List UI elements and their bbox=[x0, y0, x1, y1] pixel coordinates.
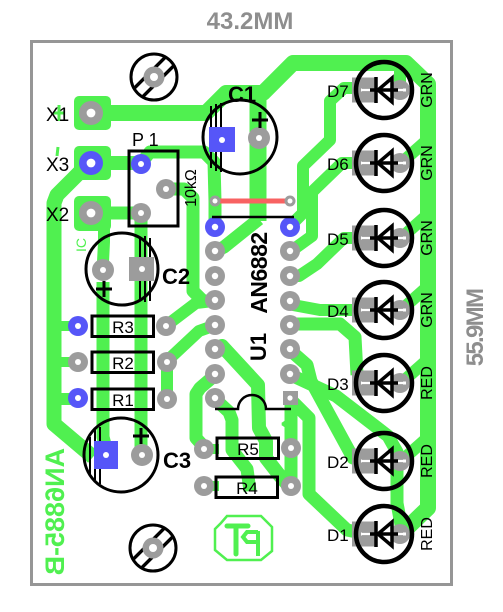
pad D6 right bbox=[390, 153, 410, 173]
wire U1 to D4 bbox=[293, 305, 364, 310]
svg-text:AN6882: AN6882 bbox=[246, 232, 272, 313]
pad D2 right bbox=[390, 451, 410, 471]
wire pin398 down under R5 R4 bbox=[215, 399, 250, 491]
svg-text:R3: R3 bbox=[112, 318, 134, 337]
pad D3 right bbox=[390, 373, 410, 393]
svg-text:D5: D5 bbox=[327, 230, 349, 249]
wire U1 to D6 bbox=[294, 163, 365, 249]
pad P1 pin3 bbox=[131, 203, 151, 223]
pad R1 right bbox=[157, 389, 177, 409]
pad D1 right bbox=[390, 524, 410, 544]
svg-text:R4: R4 bbox=[236, 479, 258, 498]
wire jumper red bbox=[219, 199, 286, 204]
svg-text:D3: D3 bbox=[327, 375, 349, 394]
pad U1 right pin 1 bbox=[280, 241, 300, 261]
wire U1 to D7 bbox=[291, 88, 365, 225]
pad U1 left pin 7 bbox=[205, 388, 225, 408]
wire P1 pin3 down to C2 square bbox=[135, 220, 148, 258]
LED D4 outline bbox=[356, 282, 412, 338]
pad C3 right bbox=[131, 444, 153, 466]
svg-text:C1: C1 bbox=[228, 82, 256, 107]
trace green pad X2 bbox=[74, 196, 111, 231]
svg-text:R5: R5 bbox=[237, 440, 259, 459]
LED D6 diode symbol bbox=[361, 150, 406, 176]
resistor R5 outline bbox=[217, 438, 279, 459]
pad R1 left bbox=[68, 388, 88, 408]
capacitor C1 plus bbox=[252, 112, 268, 128]
pad D4 left bbox=[352, 298, 376, 323]
LED D7 outline bbox=[356, 62, 412, 118]
resistor R3 outline bbox=[92, 316, 154, 337]
pad U1 left pin 4 bbox=[205, 315, 225, 335]
pad X3 bbox=[79, 151, 103, 175]
pad U1 left pin 1 bbox=[205, 241, 225, 261]
wire pin1 to R5 right R4 right bbox=[285, 401, 298, 486]
wire rail to R2 left bbox=[58, 357, 78, 367]
capacitor C2 outline bbox=[86, 233, 158, 305]
mounting hole hatch top bbox=[133, 56, 174, 97]
wire X2 down to C2 left bbox=[103, 228, 104, 262]
wire U1 to R5 left bbox=[196, 376, 214, 447]
pad U1 left pin 3 bbox=[205, 290, 225, 310]
pad R4 right bbox=[281, 476, 301, 496]
LED D4 diode symbol bbox=[361, 297, 406, 323]
wire C2 left to C3 plus bbox=[103, 282, 106, 448]
op-amp U1 outline bottom with notch bbox=[215, 395, 291, 409]
wire D2 right stub bbox=[400, 439, 426, 462]
pad C1 negative bbox=[248, 127, 270, 149]
LED D3 outline bbox=[356, 355, 412, 411]
LED D3 diode symbol bbox=[361, 370, 406, 396]
svg-text:GRN: GRN bbox=[419, 72, 436, 108]
wire U1 pin349 interior band bbox=[216, 346, 289, 486]
wire X2 to P1 pin3 bbox=[91, 207, 140, 220]
svg-text:C2: C2 bbox=[162, 264, 190, 289]
wire X3 down left rail bbox=[54, 170, 93, 457]
capacitor C2 stripe bbox=[140, 236, 150, 302]
pad R3 right bbox=[156, 316, 176, 336]
svg-text:RED: RED bbox=[419, 366, 436, 400]
svg-text:P 1: P 1 bbox=[132, 130, 159, 150]
logo PT octagon bbox=[215, 516, 272, 560]
pad R4 left bbox=[194, 476, 214, 496]
mounting hole bottom circle bbox=[130, 525, 176, 571]
wire U1 to D5 bbox=[291, 238, 365, 276]
wire pin to D2 left bbox=[291, 351, 362, 460]
LED D6 outline bbox=[356, 135, 412, 191]
silkscreen pin1 arrow U1 bbox=[282, 419, 296, 429]
resistor R1 outline bbox=[92, 389, 154, 410]
svg-text:R1: R1 bbox=[112, 391, 134, 410]
wire R2 right to U1 bbox=[168, 326, 213, 360]
svg-text:10kΩ: 10kΩ bbox=[183, 169, 200, 207]
wire R5 left stub bbox=[204, 444, 219, 454]
LED D5 diode symbol bbox=[361, 225, 406, 251]
capacitor C3 stripe bbox=[90, 427, 100, 484]
wire X3 to P1 pin1 bbox=[88, 156, 140, 170]
wire D4 right stub bbox=[400, 288, 426, 311]
wire R4 left stub bbox=[204, 481, 219, 491]
svg-text:D1: D1 bbox=[327, 526, 349, 545]
wire pin to LED rail bbox=[293, 376, 402, 530]
pad D7 left bbox=[352, 78, 376, 103]
wire D7 right stub bbox=[394, 66, 406, 88]
pad C1 positive bbox=[209, 127, 235, 152]
wire pin1 to D1 left bbox=[293, 402, 362, 533]
pad P1 pin2 bbox=[156, 179, 176, 199]
pad R2 right bbox=[157, 352, 177, 372]
wire C1 branch to U1 pin bbox=[216, 219, 259, 251]
svg-text:RED: RED bbox=[419, 444, 436, 478]
pad X2 bbox=[79, 201, 103, 225]
pad C2 square bbox=[129, 257, 154, 281]
pad R5 left bbox=[194, 439, 214, 459]
wire P1 pin1 over to jumper and U1 pin9 bbox=[142, 152, 215, 225]
capacitor C1 outline bbox=[203, 100, 277, 174]
silkscreen tick X3 bbox=[57, 147, 58, 156]
wire rail to R1 left bbox=[58, 393, 78, 405]
pad R5 right bbox=[281, 438, 301, 458]
pad D4 right bbox=[390, 300, 410, 320]
trace green pad X3 bbox=[74, 146, 111, 180]
mounting hole top circle bbox=[131, 54, 177, 100]
via jumper right bbox=[285, 196, 296, 207]
svg-text:D6: D6 bbox=[327, 155, 349, 174]
board outline bbox=[32, 42, 452, 585]
wire D6 right stub bbox=[400, 141, 426, 164]
LED D2 outline bbox=[356, 433, 412, 489]
svg-text:RED: RED bbox=[419, 517, 436, 551]
trace green pad X1 bbox=[74, 96, 111, 130]
capacitor C3 plus bbox=[133, 428, 149, 444]
svg-text:R2: R2 bbox=[112, 354, 134, 373]
pad C3 positive bbox=[94, 441, 118, 469]
wire R3 right to U1 bbox=[167, 301, 213, 325]
svg-text:GRN: GRN bbox=[419, 220, 436, 256]
pad D5 left bbox=[352, 226, 376, 251]
pad U1 left pin 2 bbox=[205, 266, 225, 286]
logo mirrored letter P bbox=[243, 531, 258, 556]
svg-text:X1: X1 bbox=[46, 105, 69, 126]
wire U1 to D3 bbox=[291, 324, 357, 375]
LED D1 diode symbol bbox=[361, 521, 406, 547]
svg-text:IC: IC bbox=[73, 238, 89, 252]
pad U1 right pin 0 bbox=[280, 217, 300, 237]
wire rail to R3 left bbox=[58, 321, 78, 331]
svg-text:AN6885-B: AN6885-B bbox=[40, 448, 70, 576]
LED D2 diode symbol bbox=[361, 448, 406, 474]
svg-text:D4: D4 bbox=[327, 302, 349, 321]
LED D7 diode symbol bbox=[361, 77, 406, 103]
potentiometer P1 outline bbox=[129, 151, 178, 226]
svg-text:X3: X3 bbox=[46, 155, 69, 176]
pad R3 left bbox=[68, 316, 88, 336]
pad C2 left bbox=[92, 259, 114, 281]
logo letter T bbox=[227, 526, 248, 554]
capacitor C3 outline bbox=[84, 418, 158, 492]
wire P1 pin2 down to U1 bbox=[166, 189, 213, 301]
wire C1 branch down bbox=[250, 94, 267, 221]
pad U1 left pin 0 bbox=[205, 217, 225, 237]
pad U1 right pin 5 bbox=[280, 339, 300, 359]
svg-text:GRN: GRN bbox=[419, 145, 436, 181]
pad D5 right bbox=[390, 228, 410, 248]
pad D7 right bbox=[390, 80, 410, 100]
svg-text:D2: D2 bbox=[327, 453, 349, 472]
svg-text:GRN: GRN bbox=[419, 292, 436, 328]
mounting hole hatch bottom bbox=[132, 527, 173, 568]
capacitor C2 plus bbox=[96, 281, 112, 297]
pad D3 left bbox=[352, 371, 376, 396]
svg-text:D7: D7 bbox=[327, 82, 349, 101]
svg-text:U1: U1 bbox=[246, 333, 271, 361]
pad U1 right pin 4 bbox=[280, 315, 300, 335]
pad D1 left bbox=[352, 522, 376, 547]
svg-text:55.9MM: 55.9MM bbox=[462, 289, 489, 366]
svg-text:X2: X2 bbox=[46, 205, 69, 226]
pad D2 left bbox=[352, 449, 376, 474]
pad U1 right pin 3 bbox=[280, 291, 300, 311]
pad U1 right pin 2 bbox=[280, 266, 300, 286]
pad D6 left bbox=[352, 151, 376, 176]
pad P1 pin1 bbox=[131, 154, 151, 174]
via jumper left bbox=[210, 196, 221, 207]
wire D3 right stub bbox=[400, 361, 426, 384]
svg-text:43.2MM: 43.2MM bbox=[207, 8, 294, 35]
resistor R2 outline bbox=[92, 352, 154, 373]
wire R2 right to R1 right bbox=[161, 363, 173, 398]
LED D5 outline bbox=[356, 210, 412, 266]
wire C2 square to C3 right bbox=[135, 281, 148, 447]
pad R2 left bbox=[68, 352, 88, 372]
wire D5 right stub bbox=[400, 216, 426, 239]
pad X1 bbox=[79, 101, 103, 125]
pad mounting hole bottom bbox=[143, 538, 164, 559]
pad U1 pin1 square bbox=[283, 391, 298, 405]
wire X1 to top rail to right rail to D1 bbox=[85, 63, 428, 531]
silkscreen plus mark X1 bbox=[53, 105, 65, 121]
resistor R4 outline bbox=[216, 477, 278, 498]
pad U1 right pin 6 bbox=[280, 364, 300, 384]
LED D1 outline bbox=[356, 506, 412, 562]
svg-text:C3: C3 bbox=[163, 448, 191, 473]
op-amp U1 outline top bbox=[212, 216, 294, 219]
pad U1 left pin 6 bbox=[205, 364, 225, 384]
capacitor C1 stripe bbox=[211, 103, 221, 172]
pad U1 left pin 5 bbox=[205, 339, 225, 359]
pad mounting hole top bbox=[144, 67, 165, 88]
